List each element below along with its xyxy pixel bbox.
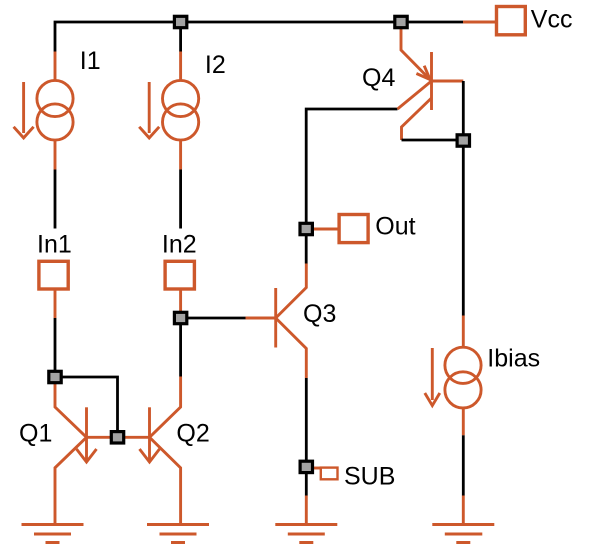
wire node D to Ibias bbox=[462, 141, 465, 316]
wire node A to node C bbox=[55, 377, 118, 437]
transistor Q2 bbox=[118, 377, 181, 525]
port In1 bbox=[39, 261, 68, 289]
ground (Ibias) bbox=[432, 525, 494, 543]
svg-text:Q2: Q2 bbox=[176, 420, 209, 448]
svg-text:In1: In1 bbox=[37, 231, 72, 259]
svg-text:SUB: SUB bbox=[344, 463, 395, 491]
wire top rail from I1 corner to Vcc bbox=[55, 22, 463, 52]
wire node Out to Out port (orange) bbox=[306, 228, 338, 231]
svg-text:In2: In2 bbox=[162, 231, 197, 259]
svg-text:Vcc: Vcc bbox=[531, 6, 573, 34]
svg-text:I2: I2 bbox=[205, 51, 226, 79]
top rail node at Q4 emitter bbox=[395, 16, 407, 27]
port Out bbox=[339, 215, 368, 243]
transistor Q4 (diode-connected PNP) bbox=[398, 29, 464, 140]
wire node SUB to ground bbox=[305, 467, 308, 496]
node A junction bbox=[49, 371, 61, 382]
transistor Q3 bbox=[246, 264, 307, 379]
current source I2 bbox=[139, 52, 199, 170]
ground (Q2 emitter) bbox=[147, 525, 209, 543]
svg-text:I1: I1 bbox=[80, 47, 101, 75]
wire In2 to node B (orange) bbox=[179, 290, 182, 318]
port In2 bbox=[165, 261, 194, 289]
wire Q3 collector to node Out bbox=[305, 229, 308, 264]
wire top rail to I2 bbox=[179, 22, 182, 52]
wire I2 to In2 bbox=[179, 170, 182, 229]
port Vcc bbox=[497, 7, 526, 35]
wire I1 to In1 bbox=[54, 170, 57, 229]
node D junction bbox=[457, 135, 469, 146]
ground (Q1 emitter) bbox=[22, 525, 84, 543]
wire Q4 base down to node D bbox=[462, 81, 465, 141]
ground (SUB) bbox=[275, 525, 337, 543]
node Out junction bbox=[300, 223, 312, 234]
wire node B to Q3 base bbox=[181, 317, 246, 320]
node B junction bbox=[174, 312, 186, 323]
current source I1 bbox=[14, 52, 74, 170]
current source Ibias bbox=[425, 316, 481, 436]
port SUB (small square) bbox=[313, 468, 338, 480]
svg-text:Q4: Q4 bbox=[362, 64, 395, 92]
svg-text:Q1: Q1 bbox=[19, 420, 52, 448]
wire node B to Q2 collector bbox=[179, 318, 182, 377]
transistor Q1 bbox=[55, 384, 118, 525]
wire Q4 collector to node D bbox=[402, 139, 464, 142]
wire node Out up and right to Q4 base bbox=[306, 109, 397, 229]
wire Q3 emitter to node SUB bbox=[305, 378, 308, 467]
svg-text:Q3: Q3 bbox=[303, 300, 336, 328]
wire In1 to node A (orange then black) bbox=[54, 290, 57, 318]
wire Vcc lead (orange) bbox=[463, 21, 495, 24]
wire Ibias to ground bbox=[462, 435, 465, 495]
svg-text:Ibias: Ibias bbox=[487, 345, 540, 373]
node C junction (Q1/Q2 bases) bbox=[111, 432, 123, 443]
svg-text:Out: Out bbox=[375, 213, 415, 241]
node SUB junction bbox=[300, 461, 312, 472]
top rail node at I2 bbox=[174, 16, 186, 27]
